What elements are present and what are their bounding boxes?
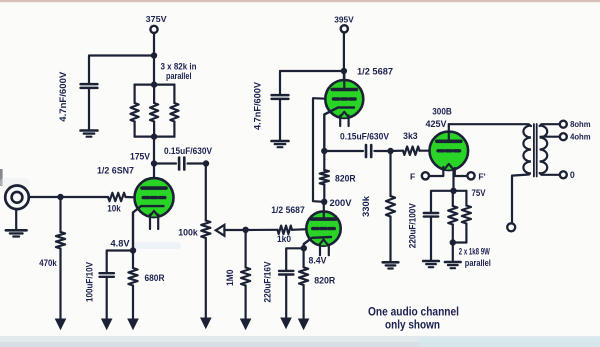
triode V3 1/2 5687 (upper) (325, 66, 393, 118)
node 4ohm terminal (560, 133, 591, 142)
ground (arrow) below 680R (127, 319, 139, 331)
svg-text:100uF/10V: 100uF/10V (85, 262, 95, 302)
V3 heater pins (340, 116, 348, 127)
svg-text:680R: 680R (145, 273, 165, 283)
capacitor C4 4.7nF/600V (253, 82, 289, 140)
wire secondary 8ohm tap (540, 124, 560, 126)
svg-text:1M0: 1M0 (225, 270, 235, 287)
svg-text:0: 0 (570, 170, 575, 180)
caption one audio channel only shown (368, 304, 459, 331)
wire secondary 4ohm tap (541, 136, 560, 138)
node 8.4V (301, 245, 327, 266)
wire 10k to V1 grid (126, 196, 144, 199)
wire input jack to 10k (29, 194, 108, 200)
ground (chassis) below input jack (6, 230, 27, 236)
resistor 820R V2 cathode (299, 248, 336, 318)
V1 heater pins (150, 215, 158, 230)
wire 395V terminal to V3 anode (341, 32, 347, 80)
ground (arrow) below 100k (200, 318, 212, 330)
wire wiper to 1M0 node (224, 227, 248, 233)
svg-text:820R: 820R (314, 275, 335, 285)
V3 anode lead (343, 71, 345, 90)
wire 3k3 to 300B grid (420, 150, 439, 152)
resistor 1k8 (b) (462, 191, 471, 243)
svg-text:8ohm: 8ohm (570, 120, 591, 129)
wire 1k0 to V2 grid (292, 228, 313, 231)
resistor network 3 x 82k in parallel (131, 81, 179, 139)
ground (arrow) below 820R (298, 319, 310, 331)
node 175V (130, 152, 157, 167)
wire 8.4V node to C7 (286, 248, 304, 271)
node 8ohm terminal (560, 120, 591, 129)
node 375V supply terminal (146, 14, 167, 33)
node 75V (450, 188, 485, 198)
svg-text:parallel: parallel (166, 71, 192, 81)
capacitor C3 100uF/10V (85, 262, 114, 319)
resistor 10k grid stopper (107, 193, 125, 214)
svg-text:F: F (410, 172, 415, 182)
svg-text:F': F' (478, 172, 485, 182)
svg-text:only shown: only shown (385, 318, 440, 332)
wire 75V node to C6 (431, 191, 454, 212)
svg-text:300B: 300B (432, 107, 452, 117)
node F' terminal (467, 172, 485, 182)
svg-text:820R: 820R (335, 173, 356, 183)
V2 cathode lead (304, 237, 331, 248)
V2 heater pins (320, 245, 329, 255)
V3 cathode lead (324, 108, 354, 152)
resistor 1M0 grid leak (225, 230, 250, 319)
svg-text:2 x 1k8 9W: 2 x 1k8 9W (459, 247, 490, 257)
transformer T1 core (534, 124, 537, 177)
capacitor C6 220uF/100V (408, 203, 439, 260)
node 425V (426, 119, 447, 129)
svg-text:4.7nF/600V: 4.7nF/600V (253, 82, 263, 130)
wire primary bottom to B+ terminal (512, 175, 529, 223)
wire filament right to F' terminal (455, 175, 467, 177)
svg-text:200V: 200V (330, 198, 352, 208)
svg-text:100k: 100k (178, 228, 198, 238)
potentiometer 100k (178, 164, 210, 318)
svg-text:375V: 375V (146, 14, 167, 24)
resistor 1k0 grid stopper (277, 226, 292, 244)
svg-text:470k: 470k (39, 258, 57, 268)
capacitor C2 0.15uF/630V (164, 146, 212, 169)
ground (chassis) below C6 (423, 261, 439, 267)
svg-text:0.15uF/630V: 0.15uF/630V (340, 132, 389, 142)
wire C2 to 100k pot (188, 160, 210, 166)
svg-text:75V: 75V (472, 188, 486, 198)
svg-text:parallel: parallel (465, 258, 491, 268)
wire C5 to 330k node (374, 148, 393, 154)
svg-text:425V: 425V (426, 119, 447, 129)
junction SRPP output node (321, 148, 327, 154)
svg-text:10k: 10k (107, 204, 121, 214)
ground (chassis) below 1k8 pair (445, 262, 461, 268)
pot wiper arrow (216, 225, 225, 236)
svg-text:4.7nF/600V: 4.7nF/600V (58, 72, 68, 122)
resistor 470k (39, 197, 65, 319)
wire SRPP output to C5 (324, 150, 363, 152)
V1 cathode lead (133, 206, 164, 250)
node 0 terminal (560, 170, 575, 180)
svg-text:1/2 6SN7: 1/2 6SN7 (97, 165, 134, 175)
wire 300B anode to transformer primary (449, 124, 531, 126)
label 3 x 82k in parallel (161, 62, 197, 81)
svg-text:0.15uF/630V: 0.15uF/630V (164, 146, 212, 156)
resistor 3k3 grid stopper (403, 131, 420, 155)
wire filament left to F terminal (429, 175, 443, 177)
wire 4.8V node to C3 (107, 251, 133, 274)
resistor 330k grid leak (361, 151, 395, 262)
wire 82k network to V1 anode (153, 137, 155, 188)
ground (arrow) below C7 (280, 318, 292, 330)
svg-text:1/2 5687: 1/2 5687 (357, 66, 393, 76)
svg-text:220uF/100V: 220uF/100V (408, 203, 418, 248)
node F terminal (410, 172, 429, 182)
node 395V supply terminal (334, 14, 354, 32)
svg-text:1/2 5687: 1/2 5687 (271, 205, 305, 215)
resistor 1k8 (a) (448, 191, 457, 243)
capacitor C1 4.7nF/600V (58, 72, 97, 130)
resistor 680R cathode (128, 251, 165, 319)
wire 375V rail to C1 (89, 56, 154, 84)
svg-text:4.8V: 4.8V (111, 239, 130, 249)
wire V3 grid to 200V node (313, 98, 333, 202)
triode V1 1/2 6SN7 (97, 165, 174, 217)
svg-text:330k: 330k (361, 196, 371, 217)
label 2 x 1k8 9W parallel (459, 247, 491, 268)
svg-text:1k0: 1k0 (277, 234, 291, 244)
ground (chassis) below C4 (272, 141, 289, 147)
V2 anode lead (323, 202, 325, 220)
svg-text:3k3: 3k3 (403, 131, 418, 141)
junction on 375V rail (151, 52, 157, 58)
ground (arrow) below 470k (55, 319, 67, 331)
wire 175V node to C2 (154, 162, 176, 164)
node B+ terminal (507, 223, 515, 231)
svg-text:220uF/16V: 220uF/16V (262, 261, 272, 302)
resistor 820R SRPP (320, 151, 356, 202)
svg-text:395V: 395V (334, 14, 354, 24)
ground (arrow) below C3 (101, 319, 113, 331)
node 4.8V (111, 239, 137, 254)
wire 330k node to 3k3 (391, 150, 404, 153)
triode V4 300B (430, 107, 469, 171)
wire secondary 0 tap (540, 173, 560, 175)
ground (arrow) below 1M0 (240, 319, 252, 331)
wire 75V node to 1k8 (b) (454, 190, 467, 192)
wire filament to 75V node (452, 169, 454, 191)
transformer T1 secondary winding (540, 126, 548, 174)
wire 395V rail to C4 (280, 71, 344, 95)
capacitor C5 0.15uF/630V (340, 132, 389, 157)
V4 filament pins (443, 167, 455, 176)
svg-text:One audio channel: One audio channel (368, 304, 459, 318)
wire 1k8 (b) bottom to junction (453, 241, 467, 243)
junction 1k8 bottom (450, 239, 456, 261)
transformer T1 primary winding (523, 126, 531, 174)
capacitor C7 220uF/16V (262, 261, 293, 317)
wire 375V terminal to 82k network (153, 33, 155, 85)
svg-text:175V: 175V (130, 152, 150, 162)
svg-text:8.4V: 8.4V (309, 256, 327, 266)
input jack J1 (5, 186, 29, 230)
svg-text:4ohm: 4ohm (570, 133, 591, 142)
ground (chassis) below C1 (81, 131, 98, 137)
triode V2 1/2 5687 (lower) (271, 205, 340, 246)
wire 1M0 node to 1k0 (246, 229, 278, 231)
node 200V (321, 198, 352, 208)
ground (chassis) below 330k (383, 262, 399, 268)
V4 anode lead (448, 124, 450, 141)
